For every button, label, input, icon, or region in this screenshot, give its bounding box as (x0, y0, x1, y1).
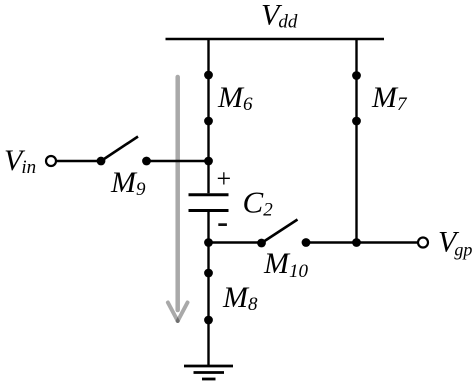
junction node: capacitor bottom / M10 wire (204, 238, 213, 247)
junction node: right branch and output wire (352, 238, 361, 247)
wire: junction to M10 (209, 241, 262, 243)
ground symbol (184, 366, 233, 379)
label M8 (222, 281, 258, 315)
wire: M9 to left branch (147, 160, 209, 162)
junction node: Vin wire and left branch (204, 157, 213, 166)
switch M6 (closed): two contact dots (204, 71, 213, 126)
current direction arrow (gray) (168, 77, 188, 321)
capacitor C2: top plate (189, 193, 229, 196)
capacitor C2: bottom plate (189, 209, 229, 212)
label Vin (4, 144, 36, 178)
wire: capacitor bottom to M8 and ground (207, 211, 209, 367)
terminal Vgp (open circle) (418, 238, 428, 248)
terminal Vin (open circle) (46, 156, 56, 166)
label M9 (110, 166, 146, 200)
switch M7 (closed): two contact dots (352, 71, 361, 125)
wire: right branch from Vdd rail down (355, 39, 357, 243)
switch M9 (open): left contact, blade, right contact (97, 137, 151, 166)
wire: Vin terminal to M9 (57, 160, 102, 162)
label Vgp (438, 226, 472, 260)
label M6 (217, 81, 253, 115)
wire: left branch from Vdd rail to capacitor (207, 39, 209, 193)
svg-text:+: + (216, 164, 231, 193)
power rail Vdd wire (166, 38, 385, 40)
label - (capacitor negative) (218, 223, 227, 226)
label Vdd (261, 0, 298, 33)
label C2 (243, 185, 274, 221)
switch M8 (closed): two contact dots (204, 269, 213, 325)
label M10 (263, 247, 309, 282)
label + (capacitor positive) (216, 164, 231, 193)
label M7 (371, 81, 408, 115)
wire: M10 to Vgp terminal (306, 241, 418, 243)
switch M10 (open): left contact, blade, right contact (257, 220, 310, 248)
